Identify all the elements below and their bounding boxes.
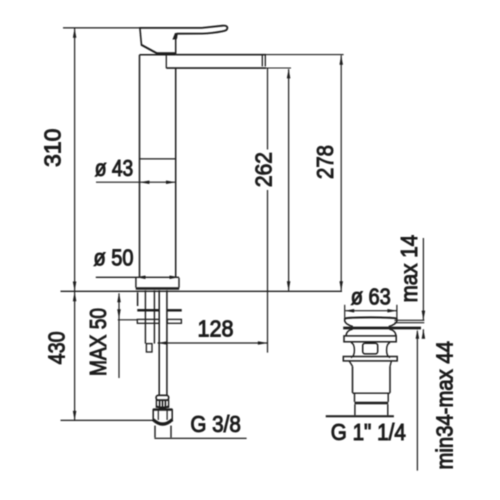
extension tick o63 left bbox=[344, 305, 346, 318]
faucet head top edge bbox=[139, 27, 202, 29]
drain taper left bbox=[349, 361, 352, 366]
dimension line min34-max44 bbox=[416, 331, 418, 471]
drain cap left flare bbox=[345, 318, 353, 327]
crimp stripe 3 bbox=[164, 400, 166, 407]
arrow 430 top bbox=[73, 292, 77, 302]
dimension line MAX 50 bbox=[118, 293, 120, 378]
base flange left edge bbox=[135, 278, 137, 288]
supply hose left bbox=[158, 290, 160, 395]
G38 base line bbox=[154, 437, 246, 439]
dimension line 262 bbox=[288, 69, 290, 291]
arrow 262 top bbox=[287, 69, 291, 79]
threaded stud right bbox=[153, 290, 155, 343]
hose nut left bbox=[152, 409, 154, 422]
nut bottom ellipse bbox=[153, 420, 172, 425]
nut tail left bbox=[154, 426, 156, 438]
lip extension line 2 bbox=[394, 322, 424, 324]
lever handle blade bbox=[177, 26, 228, 34]
svg-text:278: 278 bbox=[312, 145, 338, 179]
extension line washer (MAX50 ref) bbox=[118, 319, 138, 321]
arrow 128 right bbox=[258, 341, 268, 345]
threaded stud left bbox=[144, 290, 146, 343]
spout arm top edge bbox=[176, 54, 266, 56]
supply hose right bbox=[166, 290, 168, 395]
base flange right edge bbox=[178, 278, 180, 288]
dimension line 310-430 bbox=[74, 28, 76, 421]
column left edge bbox=[139, 55, 141, 278]
column right edge bbox=[175, 68, 177, 278]
hose nut right bbox=[171, 409, 173, 422]
hose crimp barrel bbox=[156, 400, 168, 407]
counter top line bbox=[61, 290, 343, 292]
arrow o50 right bbox=[170, 276, 180, 280]
arrow 128 left bbox=[158, 341, 168, 345]
svg-text:MAX 50: MAX 50 bbox=[85, 308, 111, 376]
drain neck upper flare right bbox=[389, 329, 396, 336]
drain body B right bbox=[387, 393, 389, 402]
arrow o63 left bbox=[345, 309, 355, 313]
extension line right of spout outlet (262 ref) bbox=[266, 67, 291, 69]
svg-text:ø 63: ø 63 bbox=[351, 284, 391, 310]
faucet head bottom edge bbox=[156, 52, 176, 54]
arrow 278 top bbox=[339, 55, 343, 64]
drain step line bbox=[353, 392, 391, 394]
crimp stripe 2 bbox=[162, 400, 164, 407]
extension tick o63 right bbox=[396, 305, 398, 318]
crimp bottom arc bbox=[156, 406, 168, 408]
arrow 430 bottom bbox=[73, 411, 77, 421]
dimension line 278 bbox=[340, 55, 342, 290]
arrow 278 bottom bbox=[339, 281, 343, 291]
extension line spout end upper segment bbox=[267, 68, 269, 149]
arrow max14 down bbox=[422, 311, 426, 321]
dimension line o63 bbox=[345, 310, 397, 312]
drain neck upper flare left bbox=[346, 329, 353, 336]
spout arm left joint line bbox=[165, 55, 167, 68]
drain cap dome bbox=[345, 317, 397, 318]
svg-text:262: 262 bbox=[251, 152, 277, 187]
washer bar 1 right bbox=[167, 309, 181, 312]
arrow min34max44 up bbox=[416, 329, 420, 339]
spout end cap line 2 bbox=[264, 55, 266, 67]
stud end piece bbox=[146, 344, 152, 352]
washer bar 1 left bbox=[137, 309, 159, 312]
drain square hole bbox=[363, 343, 378, 354]
nut tail right bbox=[170, 426, 172, 438]
arrow o63 right bbox=[387, 309, 397, 313]
extension line hose end (430 ref) bbox=[61, 419, 154, 421]
drain neck right edge bbox=[387, 343, 390, 358]
svg-text:G 1" 1/4: G 1" 1/4 bbox=[331, 419, 406, 445]
crimp stripe 1 bbox=[159, 400, 161, 407]
hose nut top bbox=[153, 408, 172, 410]
lever front lip bbox=[173, 33, 178, 39]
lip extension line 1 bbox=[394, 319, 424, 321]
svg-text:max 14: max 14 bbox=[396, 235, 422, 303]
column ring joint line bbox=[140, 158, 176, 160]
drain bottom line bbox=[326, 415, 394, 417]
arrow o50 left bbox=[136, 276, 146, 280]
drain body right bbox=[389, 366, 391, 393]
svg-text:430: 430 bbox=[44, 331, 70, 364]
faucet head right edge bbox=[175, 33, 177, 54]
arrow MAX50 bottom bbox=[117, 309, 121, 319]
drain body B left bbox=[354, 393, 356, 402]
washer bar 2 left bbox=[137, 319, 159, 323]
arrow MAX50 top bbox=[117, 293, 121, 303]
drain body C left bbox=[354, 404, 356, 415]
drain taper right bbox=[390, 361, 391, 366]
shank left edge below counter bbox=[137, 292, 139, 306]
faucet head lower-left diagonal bbox=[141, 45, 157, 53]
drain body C right bbox=[387, 404, 389, 415]
spout end cap line 1 bbox=[261, 55, 263, 67]
dimension line o50 with flange top bbox=[96, 276, 179, 278]
basin surface thick line bbox=[343, 327, 421, 330]
dimension line max14 upper bbox=[422, 238, 424, 320]
column top line under head bbox=[140, 54, 176, 56]
drain cap right flare bbox=[389, 318, 397, 327]
dimension line 128 bbox=[158, 342, 268, 344]
drain neck left edge bbox=[351, 343, 354, 358]
extension line right of spout arm top (278 ref) bbox=[266, 54, 344, 56]
svg-text:G 3/8: G 3/8 bbox=[190, 411, 241, 437]
extension line spout end lower segment bbox=[267, 190, 269, 353]
arrow 310 bottom bbox=[73, 282, 77, 292]
drain lower flange bbox=[343, 357, 397, 361]
svg-text:310: 310 bbox=[39, 129, 65, 168]
arrow max14 up bbox=[422, 329, 426, 339]
nut facet 1 bbox=[157, 410, 159, 420]
hose collar bbox=[156, 395, 169, 400]
faucet head left edge bbox=[140, 28, 142, 45]
drain thick band bbox=[355, 402, 389, 405]
dimension line o43 bbox=[96, 181, 176, 183]
arrow o43 right bbox=[166, 180, 176, 184]
washer bar 2 right bbox=[167, 319, 181, 323]
dimension line max14 lower bbox=[422, 329, 424, 337]
extension line top (310 ref, faucet top) bbox=[63, 27, 140, 29]
base flange bottom thick edge bbox=[136, 287, 180, 290]
spout arm bottom edge bbox=[166, 67, 266, 69]
arrow 262 bottom bbox=[287, 281, 291, 291]
svg-text:128: 128 bbox=[198, 316, 234, 342]
nut facet 2 bbox=[166, 410, 168, 420]
drain body left bbox=[352, 366, 354, 393]
svg-text:min34-max 44: min34-max 44 bbox=[432, 341, 458, 470]
drain upper flange bbox=[344, 336, 396, 342]
arrow o43 left bbox=[140, 180, 150, 184]
svg-text:ø 50: ø 50 bbox=[94, 245, 134, 271]
arrow 310 top bbox=[73, 28, 77, 38]
svg-text:ø 43: ø 43 bbox=[95, 155, 134, 181]
